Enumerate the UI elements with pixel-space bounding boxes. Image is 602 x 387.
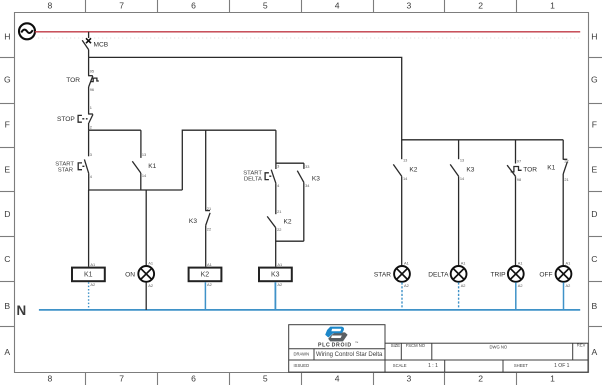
lamp STAR — [374, 260, 410, 310]
svg-text:34: 34 — [305, 183, 310, 188]
svg-text:F: F — [5, 120, 10, 130]
wire: N neutral line (blue) — [39, 309, 580, 311]
svg-text:14: 14 — [460, 176, 465, 181]
svg-text:K3: K3 — [312, 176, 320, 183]
svg-text:OFF: OFF — [539, 272, 552, 279]
svg-text:1: 1 — [90, 105, 92, 110]
svg-text:14: 14 — [142, 173, 147, 178]
contact blade — [297, 171, 304, 183]
svg-text:C: C — [591, 254, 597, 264]
contact seat — [88, 113, 93, 115]
svg-text:4: 4 — [335, 0, 340, 10]
contact K3 13-14 (NO, delta lamp) — [450, 140, 475, 266]
thermal element symbol — [511, 167, 522, 172]
contact TOR 97-98 (NO trip) — [507, 140, 537, 266]
contact K2 21-22 (interlock) — [267, 209, 292, 267]
wire — [205, 130, 207, 210]
svg-text:K2: K2 — [284, 219, 292, 226]
svg-text:21: 21 — [277, 209, 281, 214]
contact blade — [271, 170, 276, 183]
svg-text:1 : 1: 1 : 1 — [428, 363, 438, 369]
wire to N — [515, 282, 517, 310]
svg-text:3: 3 — [407, 0, 412, 10]
wire to N — [274, 282, 276, 310]
wire — [205, 225, 207, 266]
svg-text:PLC: PLC — [318, 343, 330, 349]
svg-text:K1: K1 — [148, 163, 156, 170]
svg-text:A2: A2 — [90, 282, 95, 287]
wire to N — [204, 282, 206, 310]
svg-text:2: 2 — [478, 0, 483, 10]
wire — [88, 87, 90, 114]
svg-text:5: 5 — [263, 374, 268, 384]
svg-text:ISSUED: ISSUED — [294, 363, 310, 368]
lamp symbol — [508, 266, 524, 282]
wire: STOP output rail — [89, 129, 141, 131]
svg-text:6: 6 — [191, 374, 196, 384]
wire — [303, 182, 305, 241]
wire to N — [145, 282, 147, 310]
actuator link — [269, 175, 273, 177]
svg-text:A2: A2 — [148, 283, 153, 288]
svg-text:REV: REV — [577, 343, 586, 348]
wire — [562, 174, 564, 265]
svg-text:13: 13 — [403, 158, 407, 163]
wire — [303, 163, 305, 169]
wire: hold node rail — [89, 189, 183, 191]
wire — [515, 176, 517, 265]
contact blade — [563, 162, 567, 174]
contact blade — [84, 159, 88, 173]
wire — [515, 140, 517, 164]
wire — [88, 57, 90, 75]
wire: split to parallel K3 — [276, 162, 304, 164]
svg-text:22: 22 — [207, 226, 211, 231]
contact blade — [450, 164, 458, 176]
coil box K1 — [72, 268, 105, 282]
actuator — [265, 173, 269, 180]
contact K3 33-34 (NO parallel) — [297, 163, 320, 241]
svg-text:TRIP: TRIP — [490, 272, 506, 279]
lamp OFF — [539, 260, 571, 310]
lamp TRIP — [490, 260, 523, 310]
svg-text:4: 4 — [335, 374, 340, 384]
svg-text:DWG NO: DWG NO — [490, 344, 508, 349]
breaker MCB — [82, 32, 109, 58]
svg-text:K1: K1 — [84, 272, 93, 279]
svg-text:3: 3 — [407, 374, 412, 384]
svg-text:G: G — [4, 75, 11, 85]
svg-text:B: B — [592, 301, 598, 311]
svg-text:TM: TM — [355, 342, 358, 344]
svg-text:A2: A2 — [277, 282, 282, 287]
svg-text:TOR: TOR — [66, 77, 80, 84]
svg-text:A2: A2 — [518, 283, 523, 288]
svg-text:13: 13 — [142, 152, 146, 157]
svg-text:6: 6 — [191, 0, 196, 10]
svg-text:STOP: STOP — [57, 116, 75, 123]
pushbutton START STAR (NO) — [55, 130, 93, 190]
svg-text:STAR: STAR — [58, 168, 73, 174]
svg-text:START: START — [243, 170, 262, 176]
svg-text:A1: A1 — [404, 260, 409, 265]
wire — [88, 130, 90, 156]
wire to N (dashed blue) — [401, 282, 403, 310]
contact seat — [563, 158, 568, 160]
svg-text:H: H — [591, 32, 597, 42]
svg-text:14: 14 — [403, 176, 408, 181]
contact blade — [267, 216, 276, 227]
svg-text:A: A — [4, 347, 10, 357]
svg-text:SHEET: SHEET — [514, 363, 528, 368]
wire — [88, 190, 90, 267]
svg-text:22: 22 — [277, 227, 281, 232]
wire — [88, 50, 90, 58]
svg-text:A2: A2 — [207, 282, 212, 287]
svg-text:A: A — [592, 347, 598, 357]
svg-text:K1: K1 — [547, 165, 555, 172]
contact blade — [89, 76, 93, 87]
contact blade — [393, 164, 401, 176]
svg-text:K3: K3 — [466, 167, 474, 174]
wire — [401, 140, 403, 159]
svg-text:DELTA: DELTA — [244, 177, 262, 183]
svg-text:SCALE: SCALE — [393, 363, 407, 368]
contact seat — [88, 75, 93, 77]
svg-text:A1: A1 — [518, 260, 523, 265]
coil K2 — [189, 262, 222, 310]
svg-text:K3: K3 — [189, 218, 197, 225]
contact K1 21-22 (NC, off lamp) — [547, 140, 569, 266]
wire — [140, 173, 142, 190]
svg-text:A1: A1 — [148, 260, 153, 265]
svg-text:2: 2 — [90, 125, 92, 130]
svg-text:A2: A2 — [461, 283, 466, 288]
svg-text:DRAWN: DRAWN — [294, 352, 310, 357]
svg-text:21: 21 — [564, 177, 568, 182]
svg-text:STAR: STAR — [374, 272, 391, 279]
actuator link — [82, 165, 86, 167]
svg-text:K2: K2 — [201, 272, 210, 279]
svg-text:TOR: TOR — [523, 167, 537, 174]
lamp symbol — [138, 266, 154, 282]
svg-text:A1: A1 — [566, 260, 571, 265]
svg-text:E: E — [592, 165, 598, 175]
contact seat — [205, 210, 210, 212]
actuator — [78, 163, 82, 170]
wire — [401, 176, 403, 265]
wire — [88, 32, 90, 38]
svg-text:A1: A1 — [90, 262, 95, 267]
title block — [289, 325, 588, 372]
wire to N (dotted blue) — [88, 282, 90, 310]
svg-text:13: 13 — [460, 158, 464, 163]
svg-text:A2: A2 — [566, 283, 571, 288]
svg-text:5: 5 — [263, 0, 268, 10]
svg-text:4: 4 — [90, 174, 93, 179]
svg-text:G: G — [591, 75, 598, 85]
svg-text:1 OF 1: 1 OF 1 — [554, 363, 570, 369]
svg-text:98: 98 — [517, 177, 521, 182]
svg-text:FSCM NO: FSCM NO — [406, 343, 426, 348]
wire: riser to delta feed rail — [182, 130, 276, 190]
svg-text:A1: A1 — [277, 262, 282, 267]
wire — [88, 123, 90, 130]
wire — [88, 173, 90, 190]
svg-text:A2: A2 — [404, 283, 409, 288]
lamp symbol — [394, 266, 410, 282]
lamp DELTA — [428, 260, 466, 310]
svg-text:97: 97 — [517, 159, 521, 164]
contact K1 13-14 (NO seal-in) — [132, 130, 156, 190]
svg-text:7: 7 — [119, 0, 124, 10]
svg-text:ON: ON — [125, 272, 135, 279]
svg-text:7: 7 — [119, 374, 124, 384]
wire to N — [563, 282, 565, 310]
svg-text:8: 8 — [48, 0, 53, 10]
svg-text:D: D — [591, 209, 597, 219]
wire — [562, 140, 564, 159]
svg-text:K2: K2 — [409, 167, 417, 174]
wire — [145, 190, 147, 265]
wire — [140, 130, 142, 158]
wire — [275, 183, 277, 214]
wire — [458, 140, 460, 159]
svg-text:DROID: DROID — [332, 343, 352, 349]
svg-text:33: 33 — [305, 164, 309, 169]
contact blade — [507, 165, 515, 176]
lamp ON — [125, 190, 154, 310]
actuator — [78, 115, 82, 122]
svg-text:E: E — [4, 165, 10, 175]
wire — [275, 228, 277, 267]
lamp symbol — [451, 266, 467, 282]
svg-text:K3: K3 — [271, 272, 280, 279]
svg-text:4: 4 — [277, 183, 280, 188]
svg-text:C: C — [4, 254, 10, 264]
wire — [458, 176, 460, 265]
contact K2 13-14 (NO, star lamp) — [393, 140, 417, 266]
contact blade — [206, 213, 210, 226]
svg-text:95: 95 — [90, 69, 94, 74]
wire: top rail from MCB to right branch column — [89, 57, 564, 139]
actuator link — [82, 118, 87, 120]
svg-text:96: 96 — [90, 87, 94, 92]
svg-text:A1: A1 — [461, 260, 466, 265]
AC source G1 — [19, 23, 35, 39]
svg-text:2: 2 — [478, 374, 483, 384]
breaker X mark — [86, 38, 91, 43]
contact blade — [89, 114, 93, 123]
thermal element symbol — [90, 78, 98, 82]
wire to N (dashed blue) — [458, 282, 460, 310]
pushbutton STOP (NC) — [57, 105, 93, 130]
coil box K3 — [259, 268, 292, 282]
svg-text:MCB: MCB — [94, 42, 109, 49]
svg-text:B: B — [4, 301, 10, 311]
svg-text:N: N — [17, 303, 27, 318]
svg-text:8: 8 — [48, 374, 53, 384]
wire: L phase line (red) — [35, 31, 581, 33]
coil box K2 — [189, 268, 222, 282]
contact K3 21-22 (NC interlock) — [189, 130, 211, 266]
svg-text:A1: A1 — [207, 262, 212, 267]
wire — [275, 130, 277, 169]
svg-text:1: 1 — [550, 374, 555, 384]
coil K1 — [72, 190, 105, 310]
svg-text:3: 3 — [277, 163, 279, 168]
pushbutton START DELTA (NO) — [243, 130, 304, 214]
wire: delta branch rejoin — [276, 240, 304, 242]
lamp symbol — [556, 266, 572, 282]
svg-text:Wiring Control Star Delta: Wiring Control Star Delta — [316, 352, 383, 358]
svg-text:H: H — [4, 32, 10, 42]
svg-text:SIZE: SIZE — [391, 343, 401, 348]
svg-text:D: D — [4, 209, 10, 219]
title block labels — [294, 343, 586, 368]
PLC DROID logo — [318, 327, 358, 349]
svg-text:DELTA: DELTA — [428, 272, 449, 279]
breaker blade — [82, 40, 88, 49]
overload relay contact TOR (NC) — [66, 57, 99, 113]
contact blade — [132, 161, 141, 173]
svg-text:3: 3 — [90, 152, 92, 157]
coil K3 — [259, 262, 292, 310]
svg-text:F: F — [592, 120, 597, 130]
svg-text:1: 1 — [550, 0, 555, 10]
